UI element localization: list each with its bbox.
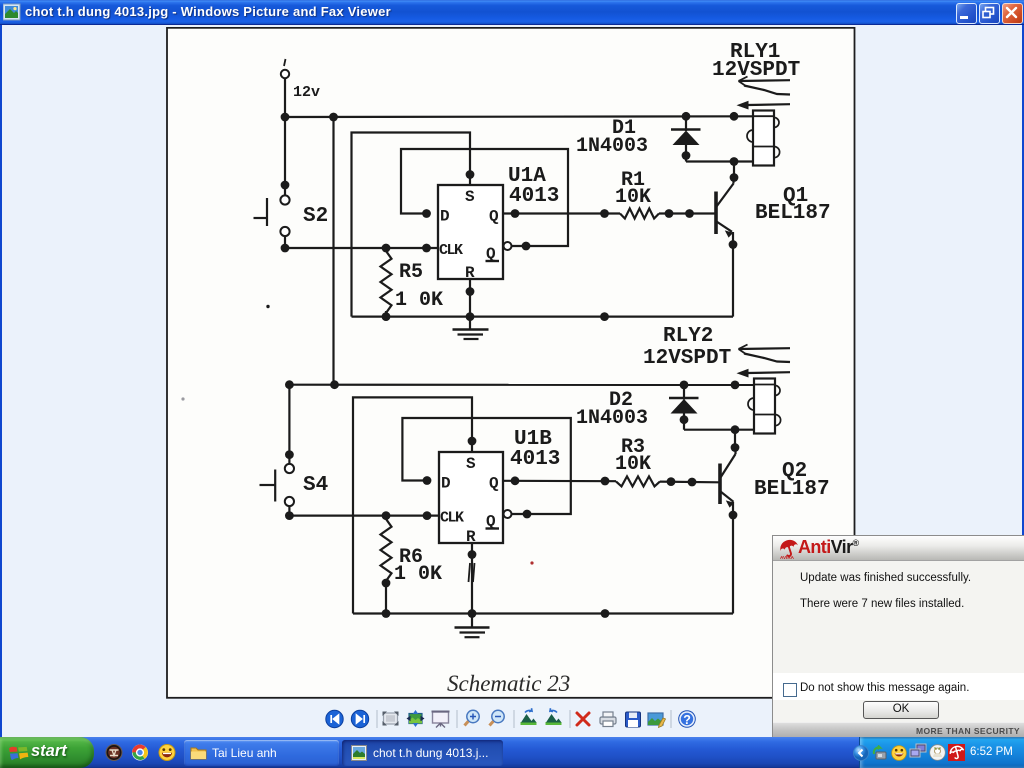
resistor R3: [616, 476, 660, 486]
system tray: [859, 737, 1024, 768]
svg-text:S: S: [465, 188, 475, 206]
Q-bar output bubble (U1B): [504, 510, 512, 518]
junction rail at reset (lower): [468, 609, 477, 618]
svg-text:10K: 10K: [615, 186, 651, 209]
svg-text:Schematic 23: Schematic 23: [447, 671, 570, 696]
switch S4: [260, 450, 295, 520]
power 12V terminal: [281, 70, 289, 78]
svg-text:12VSPDT: 12VSPDT: [712, 59, 800, 82]
junction flyback node (lower): [731, 425, 740, 434]
ground (lower): [455, 628, 490, 638]
wire R pin to ground (upper): [469, 279, 471, 329]
junction S pin: [466, 170, 475, 179]
wire D2 to relay coil: [684, 429, 754, 431]
ground (upper): [453, 330, 489, 340]
junction rail at D1: [682, 112, 691, 121]
svg-text:10K: 10K: [615, 453, 651, 476]
junction R5 top: [382, 244, 391, 253]
wire flyback to collector (Q2): [734, 430, 736, 448]
junction Q pin (U1B): [511, 476, 520, 485]
junction R3 right: [667, 477, 676, 486]
taskbar: [0, 737, 1024, 768]
restore button: [979, 3, 1000, 24]
scanned schematic image: [166, 27, 856, 699]
svg-text:RLY2: RLY2: [663, 325, 713, 348]
Q-bar output bubble (U1A): [504, 242, 512, 250]
junction base wire (Q2): [688, 478, 697, 487]
wire S4 to CLK (U1B): [289, 514, 439, 516]
svg-text:D: D: [441, 475, 451, 493]
wire R3 to Q2 base: [660, 481, 719, 484]
junction rail at R6: [382, 609, 391, 618]
junction rail right (lower): [601, 609, 610, 618]
task button 2 (pressed): [342, 740, 503, 766]
wire Q to R3: [503, 480, 616, 483]
svg-text:CLK: CLK: [440, 510, 464, 527]
junction 12V rail: [281, 113, 290, 122]
svg-text:CLK: CLK: [439, 242, 463, 259]
junction D pin: [422, 209, 431, 218]
stray mark near R wire: [469, 563, 471, 582]
wire Q-bar to D feedback (upper): [401, 149, 568, 246]
svg-text:S2: S2: [303, 205, 328, 228]
junction base wire: [685, 209, 694, 218]
relay RLY2 coil: [748, 379, 781, 434]
wire R pin to ground (lower): [471, 543, 473, 627]
junction rail at relay (lower): [731, 381, 740, 390]
junction Q wire (U1B): [601, 477, 610, 486]
junction CLK pin: [422, 244, 431, 253]
wire flyback to collector: [733, 162, 735, 178]
svg-text:D: D: [440, 208, 450, 226]
junction collector node (Q2): [731, 443, 740, 452]
resistor R5: [381, 251, 392, 313]
junction emitter (Q2): [729, 511, 738, 520]
svg-text:R5: R5: [399, 261, 423, 284]
svg-text:?: ?: [683, 713, 691, 727]
wire R1 to Q1 base: [659, 212, 715, 214]
wire R6 to ground rail: [385, 583, 387, 614]
junction S pin (U1B): [468, 437, 477, 446]
wire Q-bar to D feedback (lower): [402, 418, 570, 514]
op-amp U1A box: [438, 185, 503, 279]
junction rail2 branch: [330, 380, 339, 389]
relay RLY1 coil: [747, 111, 780, 166]
junction rail2 left corner: [285, 380, 294, 389]
relay RLY2 contacts: [737, 345, 791, 378]
quick launch icons: [104, 743, 180, 763]
wire ground rail (upper): [352, 316, 734, 318]
transistor Q2: [720, 448, 736, 508]
junction ground rail at R5: [382, 312, 390, 320]
svg-text:1 0K: 1 0K: [395, 289, 443, 312]
junction collector node (Q1): [730, 173, 739, 182]
junction R6 top: [382, 511, 391, 520]
junction R1 right: [665, 209, 674, 218]
svg-text:Q: Q: [489, 208, 499, 226]
scan speck 2: [181, 397, 184, 400]
svg-text:BEL187: BEL187: [754, 478, 830, 501]
wire Q1 emitter down: [732, 232, 734, 317]
svg-text:S: S: [466, 455, 476, 473]
AntiVir popup: [772, 535, 1024, 737]
op-amp U1B box: [439, 452, 503, 543]
task button 1: [184, 740, 339, 766]
window title bar: [0, 0, 1024, 25]
junction R6 bottom: [382, 579, 391, 588]
wire +12V rail (lower): [289, 384, 754, 386]
wire S-to-ground loop (upper): [352, 133, 471, 317]
svg-text:4013: 4013: [510, 448, 560, 471]
resistor R1: [620, 209, 659, 219]
resistor R6: [381, 519, 392, 581]
wire S-to-ground loop (lower): [353, 397, 472, 613]
svg-text:Q: Q: [489, 475, 499, 493]
scan speck: [266, 305, 269, 308]
svg-text:4013: 4013: [509, 185, 559, 208]
junction emitter (Q1): [729, 240, 738, 249]
minimize button: [956, 3, 977, 24]
junction flyback node: [730, 157, 739, 166]
start button: [0, 737, 94, 768]
svg-text:BEL187: BEL187: [755, 202, 831, 225]
svg-text:12VSPDT: 12VSPDT: [643, 347, 731, 370]
wire R5 to ground rail: [385, 311, 387, 317]
viewer toolbar: [320, 705, 710, 735]
diode D2: [669, 385, 699, 430]
close button: [1002, 3, 1023, 24]
junction D pin (U1B): [423, 476, 432, 485]
svg-text:1N4003: 1N4003: [576, 135, 648, 158]
junction Q wire: [600, 209, 609, 218]
wire Q2 emitter down: [732, 502, 734, 614]
wire 12V down to S2: [284, 78, 286, 185]
wire rail2 to S4: [288, 385, 290, 455]
junction rail at relay: [730, 112, 739, 121]
junction R5 bottom: [382, 312, 391, 321]
wire S2 to CLK: [285, 247, 438, 249]
wire branch to lower circuit: [332, 117, 334, 385]
junction ground rail right: [600, 312, 609, 321]
junction Q-bar wire: [522, 242, 531, 251]
svg-text:12v: 12v: [293, 84, 320, 101]
junction ground rail at reset: [466, 312, 475, 321]
junction R pin (U1A): [466, 287, 475, 296]
scan speck 3: [530, 561, 533, 564]
wire Q to R1: [503, 212, 620, 214]
junction Q pin: [511, 209, 520, 218]
junction CLK pin (U1B): [423, 511, 432, 520]
wire ground rail (lower): [353, 612, 733, 614]
svg-text:1N4003: 1N4003: [576, 407, 648, 430]
junction Q-bar wire (U1B): [523, 510, 532, 519]
junction rail at D2: [680, 381, 689, 390]
switch S2: [254, 181, 290, 253]
svg-text:S4: S4: [303, 474, 328, 497]
junction rail to lower branch: [329, 113, 338, 122]
transistor Q1: [716, 178, 734, 238]
wire +12V rail (upper): [285, 115, 753, 118]
junction R pin (U1B): [468, 550, 477, 559]
diode D1: [671, 116, 701, 162]
relay RLY1 contacts: [737, 77, 791, 110]
wire D1 to relay coil: [686, 160, 753, 162]
svg-text:AVIRA: AVIRA: [780, 555, 795, 559]
svg-text:1 0K: 1 0K: [394, 563, 442, 586]
